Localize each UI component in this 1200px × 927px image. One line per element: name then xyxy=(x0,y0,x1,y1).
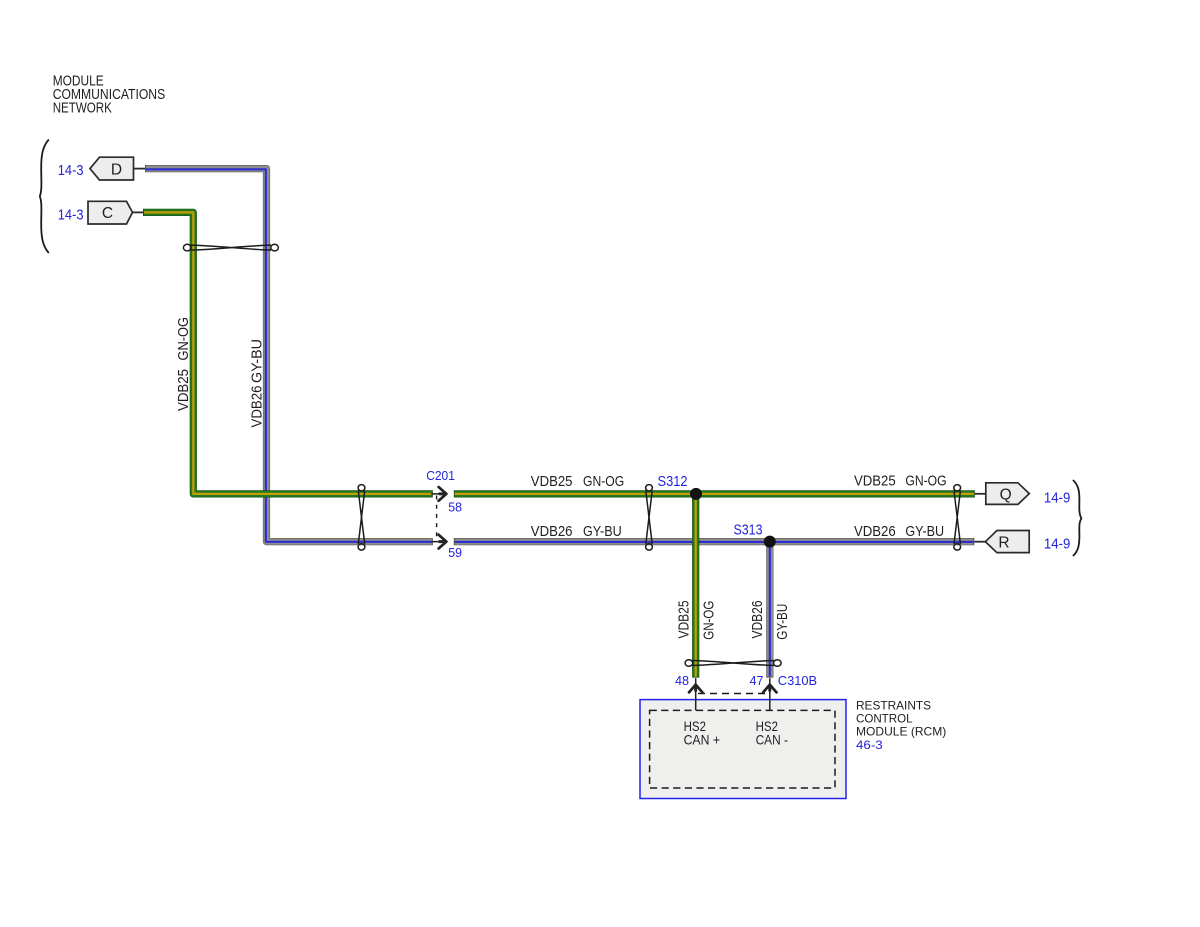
svg-text:48: 48 xyxy=(675,673,689,688)
svg-text:NETWORK: NETWORK xyxy=(53,99,112,116)
svg-text:S313: S313 xyxy=(734,522,763,538)
C201 arrow pin 58 xyxy=(432,487,447,501)
svg-text:C: C xyxy=(102,205,113,222)
twisted pair symbol (vertical, x=649) xyxy=(646,485,653,551)
splice S312 xyxy=(690,488,702,500)
svg-text:VDB25: VDB25 xyxy=(175,369,192,411)
left grouping brace xyxy=(40,140,49,254)
svg-text:R: R xyxy=(998,534,1009,551)
C310B dashed link xyxy=(698,693,768,695)
connector Q lead line xyxy=(975,493,986,495)
svg-text:VDB26: VDB26 xyxy=(531,523,573,540)
connector D lead line xyxy=(133,168,146,170)
svg-text:CAN +: CAN + xyxy=(684,731,720,747)
svg-text:CONTROL: CONTROL xyxy=(856,711,913,725)
svg-text:GY-BU: GY-BU xyxy=(583,523,622,540)
svg-text:Q: Q xyxy=(1000,487,1012,504)
svg-text:VDB26: VDB26 xyxy=(749,601,766,639)
svg-text:14-9: 14-9 xyxy=(1044,536,1071,553)
wire VDB25 GN-OG drop from S312 to C310B xyxy=(692,494,699,678)
svg-text:VDB26: VDB26 xyxy=(248,386,265,428)
svg-text:C201: C201 xyxy=(426,468,455,483)
svg-text:14-9: 14-9 xyxy=(1044,490,1071,507)
connector C201 dashed link xyxy=(436,496,438,538)
C201 arrow pin 59 xyxy=(432,535,447,549)
pin 48 internal lead xyxy=(695,699,697,711)
label RESTRAINTS CONTROL MODULE (RCM) xyxy=(856,698,946,738)
connector D xyxy=(90,157,134,180)
twisted pair symbol (top, between D and C verticals) xyxy=(183,244,278,251)
wire VDB26 GY-BU segment from C201 to R xyxy=(454,538,975,546)
svg-text:14-3: 14-3 xyxy=(58,162,84,179)
wire VDB26 GY-BU segment from D to C201 break xyxy=(145,169,433,542)
svg-text:VDB25: VDB25 xyxy=(675,601,692,639)
svg-text:GY-BU: GY-BU xyxy=(248,339,265,383)
svg-text:S312: S312 xyxy=(658,474,688,490)
connector Q xyxy=(986,483,1030,505)
wire VDB25 GN-OG segment from C201 to Q xyxy=(454,490,975,497)
splice S313 xyxy=(764,536,776,548)
C310B arrow pin 47 xyxy=(763,679,776,711)
svg-text:GY-BU: GY-BU xyxy=(905,523,944,540)
svg-text:GN-OG: GN-OG xyxy=(905,473,946,490)
connector C lead line xyxy=(131,211,144,213)
svg-text:VDB26: VDB26 xyxy=(854,523,896,540)
RCM inner dashed boundary xyxy=(650,710,835,788)
title: MODULE COMMUNICATIONS NETWORK xyxy=(53,73,166,117)
svg-text:GN-OG: GN-OG xyxy=(583,473,624,490)
svg-text:46-3: 46-3 xyxy=(856,738,883,752)
twisted pair symbol (bottom horizontal, above C310B) xyxy=(685,660,781,667)
svg-text:RESTRAINTS: RESTRAINTS xyxy=(856,698,931,712)
svg-text:C310B: C310B xyxy=(778,673,817,688)
svg-text:47: 47 xyxy=(750,673,764,688)
svg-text:CAN -: CAN - xyxy=(756,731,789,747)
svg-text:MODULE (RCM): MODULE (RCM) xyxy=(856,724,946,738)
C310B arrow pin 48 xyxy=(689,679,702,711)
RCM module box xyxy=(640,700,846,799)
svg-text:VDB25: VDB25 xyxy=(531,473,573,490)
svg-text:GN-OG: GN-OG xyxy=(701,601,718,640)
twisted pair symbol (vertical, x=361.5) xyxy=(358,485,365,551)
right grouping brace xyxy=(1073,480,1082,556)
wire VDB26 GY-BU drop from S313 to C310B xyxy=(766,542,773,678)
svg-text:14-3: 14-3 xyxy=(58,207,84,224)
wire VDB25 GN-OG segment from C to C201 break xyxy=(143,212,433,494)
twisted pair symbol (vertical, x=957.2) xyxy=(954,485,961,551)
svg-text:GY-BU: GY-BU xyxy=(774,604,791,640)
svg-text:59: 59 xyxy=(448,545,462,560)
svg-text:VDB25: VDB25 xyxy=(854,473,896,490)
pin 47 internal lead xyxy=(769,699,771,711)
connector R lead line xyxy=(974,541,986,543)
svg-text:58: 58 xyxy=(448,500,462,515)
svg-text:GN-OG: GN-OG xyxy=(175,317,192,361)
connector R xyxy=(985,531,1029,553)
connector C xyxy=(88,201,133,224)
svg-text:D: D xyxy=(111,161,122,178)
